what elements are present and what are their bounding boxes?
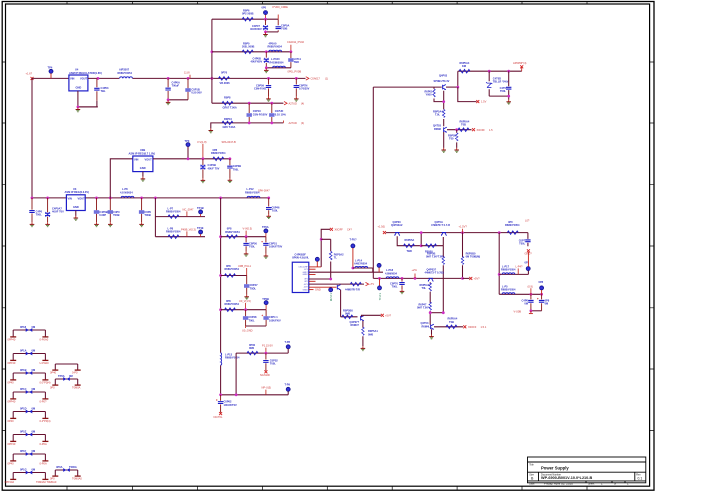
wire L-P17 branch [499,271,528,275]
svg-text:0-P0?: 0-P0? [40,399,47,403]
svg-text:0-P0A0: 0-P0A0 [40,337,49,341]
svg-text:0P1D: 0P1D [20,407,27,411]
svg-text:(0.9): (0.9) [528,284,533,288]
svg-text:0M: 0M [32,368,36,372]
wire U4 output [88,77,119,79]
svg-text:0.1: 0.1 [638,477,643,481]
svg-text:0M0: 0M0 [368,332,374,336]
inductor L-P18 [386,277,399,279]
resistor R0P5A4 T0B [458,128,469,131]
svg-text:0M: 0M [32,407,36,411]
capacitor C0P0A [277,19,279,32]
ground c0p09 [266,97,271,101]
svg-text:R0P05A: R0P05A [405,238,415,242]
pin 9 wire GND [309,289,314,291]
inductor L-P040 [273,66,286,68]
capacitor C4P0C rail2 [109,198,111,222]
svg-text:T.0L: T.0L [435,113,440,117]
test point [286,387,290,391]
svg-text:0.0*P0(4): 0.0*P0(4) [40,380,51,384]
resistor R0P8 [222,102,233,105]
test point [264,301,268,305]
svg-text:TP0: TP0 [185,139,190,143]
svg-text:GND: GND [140,166,146,170]
svg-text:0PP40: 0PP40 [8,442,16,446]
svg-text:+TV: +TV [369,282,374,286]
resistor R0P5B0 base [342,315,353,318]
wire T1 base loop [397,233,421,246]
svg-text:GND: GND [315,288,321,292]
svg-text:R680/Y0054: R680/Y0054 [501,288,516,292]
ferrite bead FB7 [8,449,49,465]
op-amp U4 regulator box [69,75,88,91]
svg-text:1.5.1: 1.5.1 [481,325,487,329]
svg-text:0P40: 0P40 [8,380,15,384]
svg-text:T-P8: T-P8 [285,340,291,344]
svg-text:NP-U(5): NP-U(5) [262,386,272,390]
svg-text:0P0: 0P0 [50,477,55,481]
svg-text:TP0A: TP0A [262,225,269,229]
ferrite bead FB10 column2 [50,465,82,480]
test point [199,230,203,234]
svg-text:T.00L: T.00L [272,209,279,213]
jumper bracket column2 [50,364,81,375]
svg-text:T00: T00 [449,137,454,141]
capacitor C0P50 [245,237,247,252]
svg-text:SPA-0047: SPA-0047 [258,188,270,192]
ferrite bead FB9 column2 [50,374,81,389]
test point [264,229,268,233]
wire cap bottoms [531,310,542,312]
ferrite bead FB4 [8,387,49,403]
svg-text:U0_V(1.5): U0_V(1.5) [239,299,251,303]
wire branch P1.15 [236,352,288,354]
svg-text:R680/Y0054: R680/Y0054 [268,45,283,49]
wire branch1 [212,18,278,20]
svg-text:0-P0: 0-P0 [72,371,78,375]
capacitor C0P51 polarized [265,237,267,254]
svg-text:ASM IP REG(0.7 1.8V): ASM IP REG(0.7 1.8V) [129,151,156,155]
svg-text:R680/Y0054: R680/Y0054 [505,223,520,227]
svg-text:TP0B: TP0B [262,297,269,301]
node stub up to X [527,252,529,267]
svg-text:T00L: T00L [249,245,255,249]
svg-text:8P0N 4.5&V/L: 8P0N 4.5&V/L [292,256,309,260]
svg-text:0M: 0M [32,349,36,353]
node +1.5 rail start [383,231,386,234]
svg-text:0M: 0M [69,374,73,378]
capacitor 0P8 polarized [541,294,543,311]
wire bus from +1.6 rail down [31,78,33,197]
wire Q2 emitter to ground [443,132,445,148]
svg-text:4-P2: 4-P2 [304,287,308,289]
capacitor C0P7 [525,240,530,242]
svg-text:TP1E: TP1E [197,226,204,230]
junction rail2 end [267,197,270,200]
wire main vertical [220,198,222,395]
svg-text:GND: GND [73,205,79,209]
svg-text:1.5V: 1.5V [481,100,487,104]
ground caps [166,100,171,104]
wire Q4T03 emitter ground [431,329,433,334]
wire branch4 [212,102,284,104]
resistor R0P6 [242,18,253,21]
svg-text:TBD: TBD [407,249,412,253]
inductor L-P17 [502,273,515,275]
pin 8 wire to Q5 base [309,286,337,288]
wire L-P8b branch [155,236,205,238]
wire bottom branch [221,394,289,396]
ground [506,100,511,104]
wire AP0053 rail [458,71,522,87]
svg-text:AP0053*(4): AP0053*(4) [513,61,527,65]
svg-text:T00L: T00L [500,89,506,93]
resistor R0P5A2 pull [321,239,331,279]
ground c0p7n [294,97,299,101]
svg-text:X0OFF: X0OFF [335,227,344,231]
ground [139,222,144,226]
wire branch [221,275,247,277]
wire Q1 base feed [373,86,441,88]
junction branch1 [264,18,267,21]
wire branch2 top [212,51,291,53]
svg-text:TBL: TBL [101,89,106,93]
wire cap bottoms [168,99,188,101]
ferrite bead FB1 [8,325,49,341]
pin 1 wire / node X0OFF C4 [309,266,321,268]
capacitor C4P0 tantalum [265,19,267,32]
node +5V right [463,277,470,279]
capacitor C4P4B polarized [202,159,204,179]
svg-text:V-V(0.5): V-V(0.5) [243,227,253,231]
junction bus cross [211,77,214,80]
svg-text:Y000: Y000 [426,93,433,97]
svg-text:4-P1: 4-P1 [304,284,308,286]
test point T-P4L with stub [379,278,381,285]
wire divider2 [462,233,464,279]
ground [400,289,405,293]
svg-text:100UF/T0V: 100UF/T0V [269,245,283,249]
wire zener bottom [489,96,509,100]
wire Q5 emitter down [340,290,342,317]
svg-text:0P40: 0P40 [8,461,15,465]
svg-text:SPA-0047-B: SPA-0047-B [222,140,236,144]
ferrite bead FB8 [5,468,57,484]
capacitor C0P1B [187,78,189,99]
svg-text:0PP40: 0PP40 [8,399,16,403]
test point TP4 [49,69,53,73]
svg-text:ASM IP REGULATOR(1.8V): ASM IP REGULATOR(1.8V) [69,71,102,75]
test point 0P8 [540,286,544,290]
svg-text:(4): (4) [301,101,304,105]
svg-text:VOUT: VOUT [78,196,86,200]
svg-text:VIN: VIN [70,77,74,81]
svg-text:T00L: T00L [392,285,398,289]
svg-text:R680/Y0054: R680/Y0054 [225,356,240,360]
svg-text:TP0A: TP0A [58,374,65,378]
svg-text:0M: 0M [32,468,36,472]
wire rail2b [373,277,462,279]
junction main out [167,77,170,80]
transistor Q4T03 low [431,324,434,329]
wire rail3 V-V(1.8) [153,158,230,160]
capacitor C4P0A7 polarized [47,198,49,222]
wire Q2 collector X0OFF [447,129,472,131]
svg-text:0P40: 0P40 [8,419,15,423]
node NC(T0L) [219,412,222,415]
op-amp U3 regulator box [66,195,85,211]
svg-text:(1): (1) [325,77,328,81]
svg-text:Q4P03A2: Q4P03A2 [391,223,403,227]
svg-text:GND2: GND2 [303,274,308,276]
capacitor C0P4 1 polarized [265,310,267,326]
svg-text:V-V(1.8): V-V(1.8) [197,140,207,144]
capacitor C4T0 [508,71,510,96]
svg-text:V-U0B: V-U0B [514,310,522,314]
svg-text:C4?: C4? [347,227,352,231]
capacitor C0P48 [245,310,247,326]
resistor R0P05A [404,244,415,247]
wire cap bottoms U0_GND [246,325,267,327]
svg-text:0P76: 0P76 [221,71,228,75]
zener diode C4T0D [488,71,490,96]
capacitor C0P52 [265,353,267,371]
wire rail end down [527,233,529,247]
wire Q1 collector [446,86,458,88]
svg-text:VIN: VIN [134,158,138,162]
transistor Q5 [337,285,340,290]
resistor R0P8 rail3 [213,157,224,160]
svg-text:0PP4A0: 0PP4A0 [5,480,15,484]
svg-text:T0DL: T0DL [250,286,257,290]
ground U5 [141,177,146,181]
test point TP branch1 [263,11,267,15]
svg-text:44M073-T 0.7(0): 44M073-T 0.7(0) [425,271,444,275]
svg-text:40UF/00V: 40UF/00V [251,60,263,64]
wire Q6 collector +5V [362,315,381,317]
pin 2 wire [309,268,316,270]
svg-text:C0A011_PV02: C0A011_PV02 [287,40,305,44]
svg-text:T0M0A0: T0M0A0 [72,477,82,481]
inductor L-P13 vertical [221,353,222,366]
svg-text:0P18: 0P18 [20,325,27,329]
op-amp U6 controller box [292,262,309,292]
svg-text:0M: 0M [524,302,528,306]
svg-text:4.8N/0054: 4.8N/0054 [385,271,398,275]
wire U5 gnd [142,172,144,177]
resistor R0P0 [242,50,253,53]
transistor T1 [394,233,399,236]
svg-text:NC/T0L: NC/T0L [214,415,223,419]
wire T2 base loop [421,237,443,246]
svg-text:R4GM/0054: R4GM/0054 [270,60,285,64]
ground Q6 [361,346,366,350]
test point [286,345,290,349]
ferrite bead FB6 [8,430,49,446]
svg-text:T-P9: T-P9 [285,382,291,386]
svg-text:T00L: T00L [270,362,276,366]
svg-text:A4B7/0054: A4B7/0054 [354,262,368,266]
svg-text:C0N-P.001: C0N-P.001 [254,87,267,91]
svg-text:11.8I: 11.8I [184,71,190,75]
svg-text:TP1B: TP1B [197,206,204,210]
svg-text:R680/Y0054: R680/Y0054 [501,268,516,272]
capacitor C0P10 [248,103,250,123]
node -1.5V stub [458,87,477,102]
test point 0P1 [526,267,530,271]
svg-text:0.70/35V: 0.70/35V [299,87,310,91]
svg-text:1-P1: 1-P1 [304,269,308,271]
node +1.6V input [31,77,34,80]
resistor R0P5A3 [429,283,432,291]
capacitor C0P70 [401,278,403,289]
svg-text:WP-6900-B001V-10.0*L210-B: WP-6900-B001V-10.0*L210-B [541,476,593,480]
svg-text:40UF T0V: 40UF T0V [208,166,220,170]
wire U3 gnd [75,211,77,216]
svg-text:T00B: T00B [281,27,287,31]
resistor L-P8b [168,235,179,238]
svg-text:0M0: 0M0 [345,312,351,316]
wire L-P5 branch [499,293,541,295]
svg-text:SP0B1/T0.4V: SP0B1/T0.4V [434,79,450,83]
inductor 4P0A0 [269,50,282,52]
svg-text:0P0: 0P0 [50,386,55,390]
capacitor C0P62 polarized [220,395,222,413]
svg-text:0.10 10%: 0.10 10% [275,112,287,116]
svg-text:100UF/T0V: 100UF/T0V [224,403,238,407]
svg-text:R680/Y0054: R680/Y0054 [166,230,181,234]
ground [94,222,99,226]
resistor R0P5A4 low [446,325,457,328]
wire Q6 emitter resistor [362,321,364,346]
ground [228,178,233,182]
svg-text:Sheet: Sheet [588,482,595,485]
resistor R0P5A4 KM [459,70,470,73]
resistor R0P500 [426,244,437,247]
resistor 4P0 on rail [507,231,518,234]
svg-text:VR.0006: VR.0006 [220,81,231,85]
svg-text:T0B: T0B [461,123,466,127]
svg-text:R680/Y0054: R680/Y0054 [166,210,181,214]
wire U4 GND pin [78,91,98,107]
svg-text:40UF T0V: 40UF T0V [52,210,64,214]
svg-text:U0_GND: U0_GND [242,328,253,332]
wire branch5 [211,123,284,129]
wire Q1 emitter chain [443,91,445,127]
svg-text:T0M0A: T0M0A [72,386,81,390]
ferrite bead FB3 [8,368,51,384]
ground U4 [76,107,81,111]
svg-text:0.50 50V: 0.50 50V [191,91,202,95]
pin 5 wire [309,278,331,280]
capacitor C4P0B rail2 [96,198,98,222]
svg-text:+5V?: +5V? [385,313,392,317]
svg-text:GR0 T.00A: GR0 T.00A [223,125,236,129]
svg-text:of: of [614,482,616,485]
svg-text:0P0: 0P0 [262,5,267,9]
svg-text:4.8 N/0054: 4.8 N/0054 [120,190,133,194]
node A27UD lower [282,121,284,123]
svg-text:T00B: T00B [144,213,150,217]
ground [266,214,271,218]
svg-text:R0M4?: R0M4? [351,323,360,327]
wire vertical bus [211,19,213,103]
svg-text:T00uF: T00uF [172,84,180,88]
inductor L-P8 [121,196,134,198]
svg-text:0M: 0M [32,449,36,453]
svg-text:L0?: L0? [525,219,530,223]
svg-text:R0P8: R0P8 [224,95,231,99]
svg-text:TBD: TBD [294,60,299,64]
junction U4 gnd [77,106,80,109]
svg-text:40UF/00V: 40UF/00V [250,27,262,31]
wire rail2 [32,197,269,199]
transistor Q4 on rail2b [428,278,433,281]
svg-text:0M? T.00*: 0M? T.00* [417,306,429,310]
svg-text:0P2 500B: 0P2 500B [242,12,254,16]
svg-text:T-P4L: T-P4L [378,293,382,301]
inductor L-P5 [502,293,515,295]
ground branch1 [263,32,268,36]
svg-text:A27UD: A27UD [289,121,297,125]
svg-text:0P0)_PV0B: 0P0)_PV0B [288,70,302,74]
svg-text:T00L: T00L [519,242,525,246]
capacitor L0711 [290,52,292,68]
svg-text:0*U00_C0RE: 0*U00_C0RE [272,5,288,9]
junctions branch5 [248,122,251,125]
svg-text:R0P10: R0P10 [224,117,232,121]
transistor Q2 [444,127,447,132]
svg-text:0M: 0M [32,387,36,391]
svg-text:0PP40: 0PP40 [8,337,16,341]
transistor Q6 [361,316,364,321]
wire right bus [498,233,500,295]
svg-text:44M07R-T/R: 44M07R-T/R [345,287,360,291]
wire L stem [235,353,237,395]
svg-text:0P1A: 0P1A [20,349,27,353]
ground U3 [74,216,79,220]
svg-text:T00B: T00B [113,213,119,217]
node X0OFF 1.5.1 [463,325,466,328]
svg-text:TBLLR *0%V: TBLLR *0%V [493,80,509,84]
svg-text:ASM IP REG(0.3.3V): ASM IP REG(0.3.3V) [65,190,90,194]
ground branch5 [209,128,214,132]
pin 3 wire long [309,271,383,273]
svg-text:0P1E: 0P1E [20,430,27,434]
wire Q4T03 collector [434,326,463,328]
wire branch [221,236,266,238]
svg-text:Friday, April 03, 2020: Friday, April 03, 2020 [544,482,573,486]
inductor L-P14 row [352,267,355,270]
resistor R0P8c [225,274,236,277]
ferrite bead FB5 [8,407,51,423]
wire X0OFF C4 net [321,229,330,267]
svg-text:X0OFF: X0OFF [468,325,477,329]
capacitor C0P7N [295,78,297,96]
resistor R0P30 [247,351,258,354]
svg-text:1.5: 1.5 [489,128,493,132]
svg-text:NC/G0D: NC/G0D [260,373,270,377]
svg-text:Date:: Date: [529,482,535,485]
ground [45,222,50,226]
svg-text:R0M2: R0M2 [434,127,441,131]
svg-text:GND0: GND0 [303,289,308,291]
wire U5 feed up [110,159,133,198]
svg-text:0M? T.00*T.0R: 0M? T.00*T.0R [426,255,443,259]
svg-text:T-P5?: T-P5? [350,238,357,242]
svg-text:P1.15-5V: P1.15-5V [262,344,273,348]
wire branch1 cap bottoms [266,31,279,33]
